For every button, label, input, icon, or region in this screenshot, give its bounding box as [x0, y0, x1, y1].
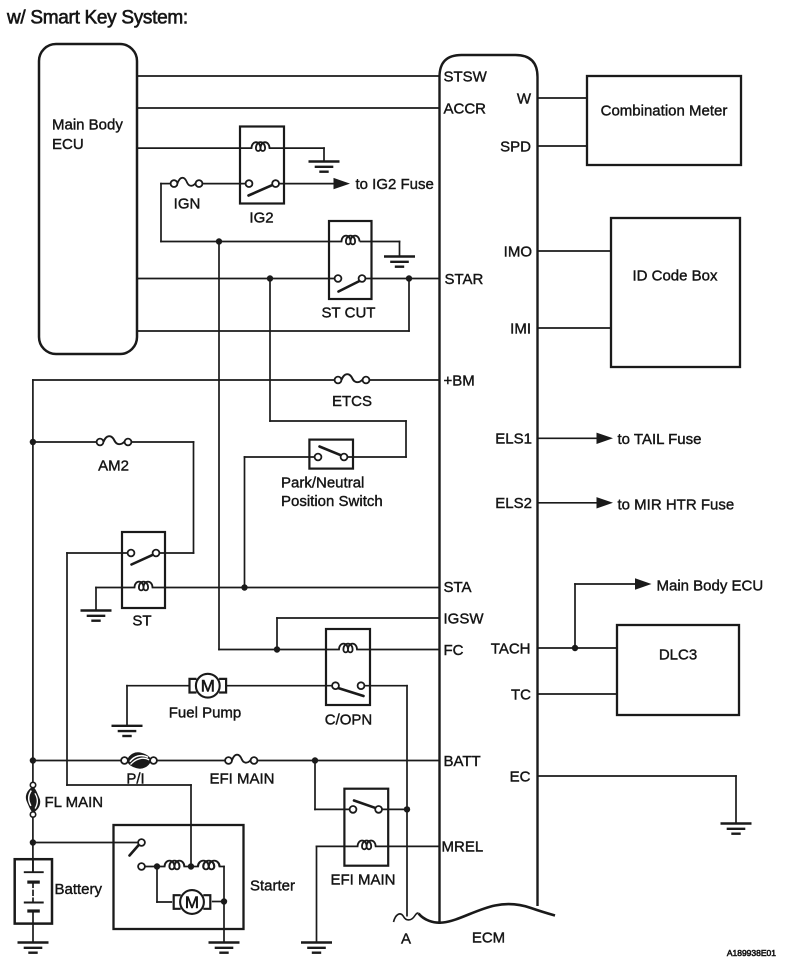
svg-text:STAR: STAR: [445, 271, 484, 288]
svg-text:TC: TC: [511, 686, 531, 703]
svg-text:ST: ST: [132, 613, 151, 630]
svg-text:Position Switch: Position Switch: [281, 493, 383, 510]
svg-text:ELS2: ELS2: [495, 495, 532, 512]
svg-text:IGSW: IGSW: [444, 610, 485, 627]
svg-text:w/ Smart Key System:: w/ Smart Key System:: [6, 8, 188, 29]
svg-text:ACCR: ACCR: [444, 101, 487, 118]
svg-text:P/I: P/I: [126, 770, 144, 787]
svg-text:Starter: Starter: [250, 878, 295, 895]
svg-text:to MIR HTR Fuse: to MIR HTR Fuse: [618, 497, 735, 514]
svg-text:MREL: MREL: [442, 839, 484, 856]
svg-text:+BM: +BM: [444, 372, 475, 389]
svg-text:M: M: [185, 893, 199, 912]
svg-text:IMI: IMI: [510, 320, 531, 337]
svg-text:ETCS: ETCS: [332, 393, 372, 410]
svg-text:ELS1: ELS1: [495, 431, 532, 448]
svg-text:AM2: AM2: [98, 458, 129, 475]
svg-text:Combination Meter: Combination Meter: [601, 103, 728, 120]
svg-text:EFI MAIN: EFI MAIN: [330, 872, 395, 889]
svg-text:BATT: BATT: [444, 753, 481, 770]
svg-text:C/OPN: C/OPN: [325, 712, 373, 729]
svg-text:IGN: IGN: [174, 196, 201, 213]
svg-text:Main Body: Main Body: [52, 117, 123, 134]
svg-text:Fuel Pump: Fuel Pump: [169, 705, 242, 722]
svg-text:to IG2 Fuse: to IG2 Fuse: [356, 176, 434, 193]
svg-text:IG2: IG2: [249, 210, 273, 227]
svg-text:IMO: IMO: [504, 243, 532, 260]
svg-text:M: M: [201, 677, 215, 696]
svg-text:FL MAIN: FL MAIN: [45, 794, 104, 811]
svg-text:A189938E01: A189938E01: [727, 948, 776, 958]
svg-text:EC: EC: [510, 768, 531, 785]
svg-text:DLC3: DLC3: [659, 647, 697, 664]
svg-text:STA: STA: [444, 579, 472, 596]
svg-text:TACH: TACH: [491, 640, 531, 657]
svg-text:A: A: [401, 931, 411, 948]
svg-text:Main Body ECU: Main Body ECU: [657, 578, 764, 595]
svg-text:W: W: [517, 90, 532, 107]
svg-text:STSW: STSW: [444, 68, 488, 85]
svg-text:ST CUT: ST CUT: [322, 305, 376, 322]
svg-text:ECU: ECU: [52, 136, 84, 153]
svg-text:FC: FC: [444, 642, 464, 659]
svg-text:SPD: SPD: [500, 138, 531, 155]
svg-text:ECM: ECM: [472, 930, 505, 947]
svg-text:to TAIL Fuse: to TAIL Fuse: [618, 431, 702, 448]
svg-text:Park/Neutral: Park/Neutral: [281, 475, 364, 492]
svg-text:Battery: Battery: [55, 881, 103, 898]
svg-text:ID Code Box: ID Code Box: [632, 268, 718, 285]
svg-text:EFI MAIN: EFI MAIN: [209, 770, 274, 787]
